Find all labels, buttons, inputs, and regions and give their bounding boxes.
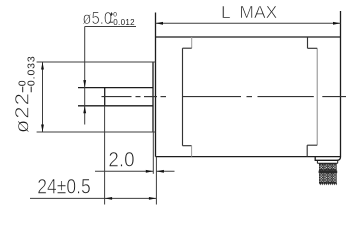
svg-text:24±0.5: 24±0.5 [37, 175, 91, 199]
svg-text:ø5.0: ø5.0 [82, 9, 112, 28]
svg-text:L MAX: L MAX [221, 2, 277, 22]
svg-text:0.012: 0.012 [113, 18, 135, 27]
svg-text:2.0: 2.0 [108, 149, 134, 172]
svg-text:0.033: 0.033 [26, 55, 38, 86]
svg-text:ø22: ø22 [12, 92, 33, 133]
